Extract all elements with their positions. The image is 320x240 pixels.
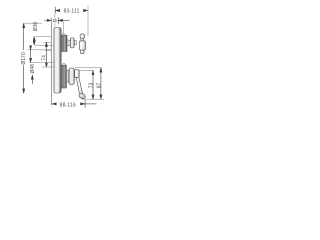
svg-text:88-116: 88-116: [60, 103, 76, 109]
escutcheon plate (side view): [54, 27, 61, 93]
left dims: dia 170: [23, 23, 42, 93]
cross handle (side view): top ball, waist, hub, bottom arm: [79, 34, 85, 54]
dimension 83-111: [55, 7, 88, 27]
svg-text:16: 16: [52, 18, 57, 23]
wall line: [50, 18, 52, 106]
svg-text:83-111: 83-111: [64, 9, 80, 15]
upper valve: neck: [67, 40, 70, 46]
lower valve: neck: [66, 70, 69, 82]
lever handle: arm + grip: [76, 77, 82, 95]
svg-text:73: 73: [89, 83, 95, 89]
left dims: dia 30: [33, 37, 54, 46]
upper valve: spindle stem: [74, 41, 76, 45]
svg-text:74: 74: [42, 55, 48, 61]
ext line right (111 position), down to handle: [87, 6, 89, 36]
svg-text:Ø30: Ø30: [33, 22, 39, 32]
upper valve: collar: [70, 38, 74, 48]
ext line from 16-tail down to valve body: [63, 22, 65, 35]
lower valve: hub/collar: [69, 68, 74, 84]
right dims: 73 and 87: [75, 68, 104, 99]
dimension 16: [45, 17, 70, 24]
svg-text:Ø48: Ø48: [30, 64, 36, 74]
svg-text:Ø170: Ø170: [21, 52, 27, 64]
lower valve: body: [62, 64, 65, 67]
svg-text:87: 87: [97, 83, 103, 89]
left dims: 74 (axis to axis): [42, 42, 54, 67]
dimension 88-116: [52, 100, 97, 107]
lever handle: pivot knob: [75, 70, 80, 78]
left dims: dia 48 (outside arrows): [28, 46, 54, 84]
upper valve: body: [62, 34, 65, 37]
